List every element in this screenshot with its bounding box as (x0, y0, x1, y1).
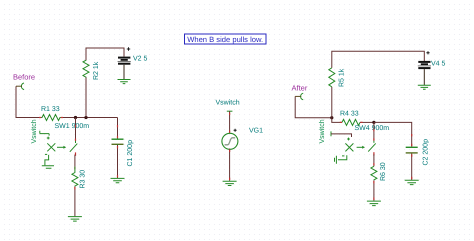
pin marks R4 (340, 121, 363, 123)
svg-text:SW1 900m: SW1 900m (55, 123, 90, 130)
wire R6 bottom to ground (373, 180, 375, 201)
switch SW1 control plus terminal (40, 131, 50, 140)
wire R3 bottom to ground (74, 186, 76, 216)
switch SW4 cross and arrow (345, 143, 365, 151)
pin marks R1 (39, 117, 63, 119)
VG1 plus sign (234, 129, 237, 132)
pin mark R6 top (373, 163, 375, 165)
resistor R3 (72, 167, 86, 189)
pin mark SW1 top (75, 125, 77, 141)
wire junction A down to SW1 contact (75, 118, 77, 142)
node junction A (switch column) (74, 116, 77, 119)
ground below R3 (68, 217, 82, 222)
wire probe Before to R1 (16, 86, 41, 117)
wire SW4 to R6 (373, 154, 375, 166)
wire junction D to C2 corner (374, 122, 412, 146)
svg-text:VG1: VG1 (249, 128, 263, 135)
switch SW1 cross and arrow (47, 143, 66, 151)
svg-text:SW4 900m: SW4 900m (355, 125, 390, 132)
svg-text:C2 200p: C2 200p (423, 139, 430, 166)
resistor R1 (41, 106, 62, 121)
pin mark C2 top (411, 134, 413, 146)
switch SW4 control plus terminal (331, 131, 352, 140)
svg-text:R6 30: R6 30 (380, 162, 387, 181)
pin marks VG1 (229, 113, 231, 180)
svg-text:R2 1k: R2 1k (92, 61, 100, 80)
wire C1 bottom to ground (117, 145, 119, 178)
pin mark C2 bottom (411, 154, 413, 179)
svg-text:Vswitch: Vswitch (216, 99, 240, 107)
pin mark R3 bottom (74, 187, 76, 189)
wire C1 top lead (117, 118, 119, 139)
wire junction D down to SW4 contact (373, 122, 375, 140)
resistor R5 (329, 68, 346, 87)
resistor R6 (371, 162, 387, 181)
node Before (probe label) (13, 73, 35, 90)
svg-text:When B side pulls low.: When B side pulls low. (187, 35, 263, 44)
battery V2 (118, 56, 148, 80)
svg-text:V4 5: V4 5 (431, 61, 446, 68)
wire C2 bottom to ground (411, 154, 413, 181)
svg-text:Vswitch: Vswitch (318, 119, 326, 143)
svg-text:Before: Before (13, 73, 35, 82)
pin mark SW4 top (373, 129, 375, 141)
capacitor C1 (112, 138, 135, 166)
battery V4 (418, 61, 446, 86)
wire R2 top to battery V2 (86, 48, 124, 60)
node junction D (SW4 column) (372, 121, 375, 124)
wire VG1 to ground (229, 149, 231, 181)
pin mark C1 bottom (117, 146, 119, 177)
wire probe After to junction (295, 96, 332, 117)
generator VG1 top pin (227, 110, 233, 112)
wire R4 to junction D (360, 121, 374, 123)
generator VG1 (222, 128, 263, 150)
pin mark C1 top (117, 125, 119, 138)
wire R5 top to battery V4 (332, 51, 425, 68)
svg-text:C1 200p: C1 200p (127, 140, 134, 167)
switch SW4 control minus terminal and ground (335, 155, 347, 164)
svg-text:V2 5: V2 5 (133, 56, 148, 63)
switch SW1 contact (70, 141, 78, 156)
ground below C1 (111, 178, 125, 182)
switch SW4 contact (368, 141, 376, 156)
node After (probe label) (292, 84, 308, 100)
node junction B (R2 column) (84, 116, 87, 119)
ground below R6 (367, 201, 381, 206)
annotation text box "When B side pulls low." (185, 34, 267, 44)
wire R1 to C1 corner (62, 117, 118, 119)
ground below V2 (118, 80, 131, 84)
wire junction C jog to R4 (332, 118, 342, 123)
wire Vswitch to VG1 (229, 111, 231, 133)
svg-text:After: After (292, 84, 308, 93)
ground below V4 (418, 85, 431, 89)
pin mark R3 top (74, 167, 76, 169)
node junction C (R5 column) (330, 116, 333, 119)
battery V4 plus sign (426, 51, 429, 54)
switch SW1 control minus terminal and ground (42, 154, 54, 168)
ground below VG1 (223, 181, 237, 185)
svg-text:R1 33: R1 33 (41, 106, 60, 113)
ground below C2 (405, 180, 419, 184)
svg-text:R3 30: R3 30 (79, 170, 86, 189)
capacitor C2 (406, 139, 430, 166)
wire R2 bottom lead (85, 78, 87, 118)
wire SW1 to R3 (74, 155, 76, 167)
svg-text:R4 33: R4 33 (340, 111, 359, 118)
pin mark R6 bottom (373, 181, 375, 200)
resistor R2 (83, 60, 100, 80)
battery V2 plus sign (127, 47, 130, 50)
svg-text:Vswitch: Vswitch (30, 119, 38, 143)
wire R5 bottom lead (331, 87, 333, 118)
resistor R4 (340, 111, 360, 126)
svg-text:R5 1k: R5 1k (338, 68, 346, 87)
